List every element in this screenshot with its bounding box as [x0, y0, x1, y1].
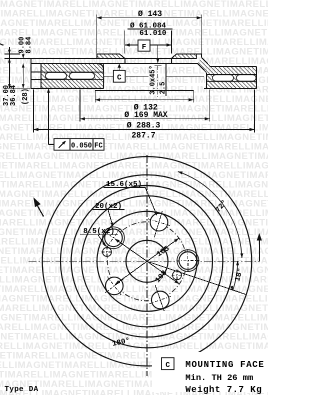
bolt hole 2 — [150, 213, 168, 231]
right ring inner edge — [206, 73, 208, 89]
vent stadium 2 — [70, 73, 95, 80]
dim 108 diagonal — [115, 239, 180, 284]
hat-to-ring step (right side) — [201, 54, 203, 58]
chamfer leader 3.0x45 — [157, 45, 159, 62]
right ring bottom line — [204, 87, 257, 89]
hat skirt line behind (dia 132) — [95, 90, 194, 92]
svg-text:F: F — [142, 44, 147, 52]
dim 105 diagonal — [115, 238, 179, 284]
left ring vent row hatch — [41, 72, 104, 80]
right ring vent row hatch — [207, 74, 257, 81]
runout symbol — [59, 141, 66, 148]
vent slot lines on OD edge — [31, 71, 41, 73]
svg-text:8.84: 8.84 — [25, 37, 33, 54]
vertical centerline — [146, 155, 148, 376]
left ring top plate (hatched) — [41, 63, 104, 72]
dim 37.00/36.84 (rotated) — [8, 84, 11, 88]
chamfer leader 2.5 — [165, 64, 167, 97]
right ring top plate (hatched) — [207, 67, 257, 75]
hat step circle — [82, 196, 213, 327]
up arrow right side — [258, 236, 260, 261]
svg-text:2.5: 2.5 — [160, 82, 168, 95]
svg-text:C: C — [117, 74, 122, 82]
datum C reference box — [162, 358, 175, 370]
hat outer circle — [71, 185, 223, 337]
white backing for text block — [152, 352, 268, 392]
radial line 18deg — [147, 261, 246, 294]
dim dia 132 — [95, 99, 194, 101]
svg-text:FC: FC — [94, 142, 102, 150]
bore chamfer left 3.0x45 — [120, 54, 125, 58]
left ring bottom plate (hatched) — [41, 80, 104, 89]
section view: hat top surface line — [97, 53, 120, 55]
bore chamfer right — [172, 54, 177, 58]
bolt circle (dash-dot) — [108, 222, 187, 301]
section view: upper band lines — [31, 57, 197, 59]
left friction ring outer-edge band — [30, 58, 32, 88]
center bore circle — [126, 240, 168, 282]
small hole 8.5 lower-right — [173, 271, 182, 280]
svg-text:36.84: 36.84 — [10, 85, 18, 106]
bolt hole 4 — [106, 277, 124, 295]
svg-text:3.0x45°: 3.0x45° — [148, 65, 157, 94]
svg-text:Type DA: Type DA — [5, 386, 39, 394]
right ring top line — [210, 66, 257, 68]
svg-text:61.010: 61.010 — [139, 30, 167, 38]
view direction arrow upper-left — [37, 205, 43, 216]
horizontal centerline — [29, 260, 260, 262]
svg-text:Min. TH 26 mm: Min. TH 26 mm — [185, 373, 253, 383]
bolt hole 3 — [105, 229, 123, 247]
FCF leader to friction surface — [49, 143, 55, 145]
svg-text:MOUNTING FACE: MOUNTING FACE — [185, 360, 264, 370]
svg-text:287.7: 287.7 — [131, 131, 155, 140]
vent stadium 1 — [46, 73, 67, 80]
swept band inner circle — [61, 175, 234, 348]
feature control frame runout 0.050 FC — [54, 139, 104, 151]
svg-text:(28): (28) — [22, 88, 30, 105]
svg-text:0.050: 0.050 — [71, 142, 92, 150]
dim (28) rotated — [22, 63, 24, 88]
bolt hole 1 — [179, 252, 197, 270]
svg-text:7: 7 — [0, 42, 7, 47]
72deg arc with arrows — [178, 172, 242, 259]
ext lines left — [5, 53, 21, 55]
right ring bottom plate (hatched) — [207, 82, 257, 89]
hub face circle — [97, 211, 197, 311]
left ring bottom line — [31, 87, 104, 89]
bore left wall — [124, 58, 126, 63]
small hole 8.5 upper-left — [103, 248, 112, 257]
right vent stadium 2 — [237, 75, 257, 81]
right vent stadium 1 — [213, 75, 234, 81]
datum F frame — [138, 40, 150, 51]
datum C frame — [113, 70, 125, 82]
front view outer circle — [42, 157, 251, 366]
left ring inner edge and fillet — [97, 63, 104, 88]
svg-text:Weight 7.7 Kg: Weight 7.7 Kg — [185, 385, 262, 395]
svg-text:C: C — [165, 362, 170, 370]
hat plate hatched section left of bore — [97, 54, 125, 58]
hat outer edge — [96, 54, 98, 58]
disc right edge — [256, 66, 258, 88]
inner channel line behind — [104, 75, 113, 77]
bolt hole 5 — [152, 291, 170, 309]
bore right wall — [171, 58, 173, 63]
18deg arc with arrows — [233, 261, 238, 290]
hat plate hatched section right of bore — [172, 54, 197, 58]
